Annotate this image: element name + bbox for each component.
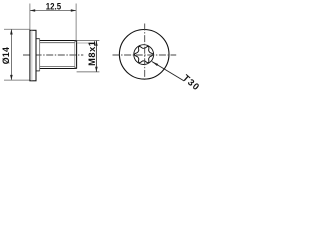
svg-text:Ø14: Ø14 — [1, 47, 11, 64]
svg-text:M8x1: M8x1 — [87, 41, 97, 66]
svg-text:12.5: 12.5 — [46, 1, 62, 12]
